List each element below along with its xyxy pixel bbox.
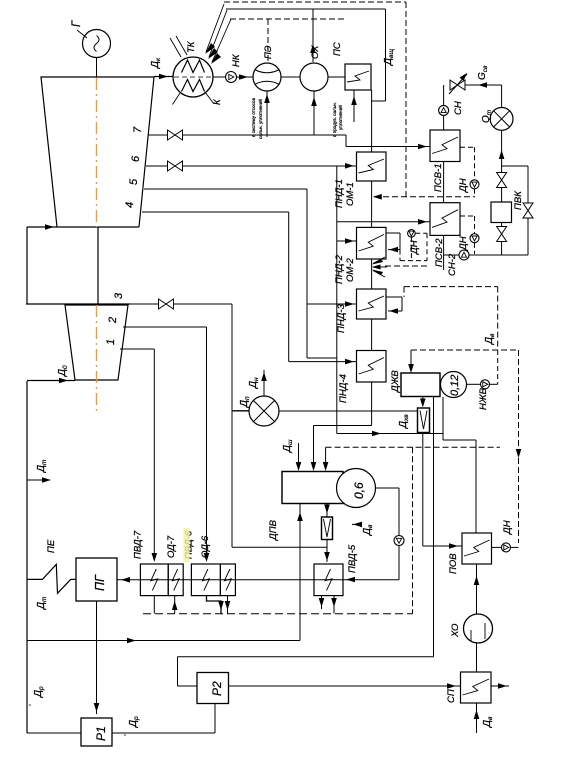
heater PND-3 [357, 289, 387, 319]
svg-text:3: 3 [113, 292, 125, 299]
heater PND-2 [357, 227, 387, 259]
vacuum deaerator column DZhV [401, 373, 440, 397]
industrial steam consumer circle [249, 396, 279, 426]
pump NZhV [481, 380, 490, 389]
svg-text:ПНД-4: ПНД-4 [338, 374, 349, 403]
arrow into PND-2 [337, 240, 357, 242]
vapour cooler OV [418, 408, 430, 433]
valve on extraction 7 [168, 130, 176, 140]
svg-text:ДН: ДН [458, 236, 469, 251]
Dvsh loop vertical [385, 9, 387, 101]
svg-text:в систему отсосов: в систему отсосов [251, 97, 256, 137]
Dp stub [232, 410, 250, 412]
expander R1 box [81, 718, 112, 746]
PVD-6 heater [191, 564, 220, 596]
OD-7 drain cooler [168, 564, 183, 596]
OV-2 outlet into PVD-5 [326, 540, 328, 563]
svg-text:ПСВ-2: ПСВ-2 [434, 238, 445, 267]
svg-text:6: 6 [130, 155, 142, 162]
peak boiler PVK box [491, 202, 512, 223]
deaerator inlet Dsh [298, 443, 300, 467]
highlight artifact [184, 528, 190, 562]
line Gsv [465, 84, 502, 86]
heater PSV-1 [430, 130, 460, 162]
PVD-5 heater [314, 564, 343, 596]
condenser tube bundle 1 [182, 60, 205, 73]
svg-text:ТК: ТК [186, 40, 197, 53]
DN-3 connections [492, 546, 502, 548]
svg-text:5: 5 [128, 178, 140, 185]
wire main steam line to turbine (vertical x=27) [26, 381, 28, 733]
R1 steam to deaerator [27, 640, 300, 642]
svg-text:НЖВ: НЖВ [478, 387, 489, 410]
svg-text:Р2: Р2 [210, 681, 224, 696]
pump SN-1 [439, 105, 449, 115]
svg-text:в продув. сальн.: в продув. сальн. [332, 102, 337, 137]
cooler OH circle [300, 63, 328, 91]
svg-text:ПВД-5: ПВД-5 [347, 544, 358, 573]
PSV-2 drain dashed to DN-2 [460, 215, 475, 217]
svg-text:0,6: 0,6 [352, 482, 366, 499]
svg-text:ХО: ХО [450, 623, 461, 638]
DZhV tank outlet down [433, 397, 435, 657]
svg-text:НК: НК [231, 53, 242, 67]
vapour vent Dv stub [352, 523, 362, 525]
extraction 4 line [142, 211, 289, 213]
turbine middle section box [26, 227, 28, 304]
feed pump discharge [398, 546, 400, 580]
dashed drain box right side [412, 447, 414, 614]
deaerator inlet dashed right [325, 447, 327, 466]
PVD-7 heater [140, 564, 168, 596]
extraction 6 stub [146, 165, 168, 167]
SP make-up inlet Dv [476, 703, 478, 733]
turbine inlet line D0 [27, 380, 75, 382]
pump DN (PND-2 drains) [408, 230, 416, 238]
svg-text:сальн. уплотнений: сальн. уплотнений [257, 99, 263, 139]
svg-text:ПНД-2: ПНД-2 [334, 254, 345, 284]
svg-text:1: 1 [105, 339, 117, 345]
extraction 3 line [173, 303, 232, 305]
PE drain line with arrow [266, 91, 268, 137]
OH vent line [312, 9, 314, 62]
condensate return line from Dp [279, 410, 418, 412]
valve PVK lower [501, 223, 503, 227]
turbine section joint line upper with arrow [27, 226, 139, 228]
line to PVK [501, 187, 503, 202]
header to DZhV line [337, 433, 443, 435]
heater PSV-2 [430, 203, 460, 236]
svg-text:ДЖВ: ДЖВ [390, 370, 401, 393]
svg-text:ПЕ: ПЕ [46, 539, 57, 553]
DZhV outlet horizontal [178, 656, 434, 658]
NZhV suction [467, 383, 481, 385]
PS drain with arrow [353, 90, 355, 122]
condenser left support leg [173, 92, 181, 104]
svg-text:уплотнений: уплотнений [337, 105, 343, 130]
svg-text:ПВК: ПВК [513, 190, 524, 210]
gland heater PS [345, 64, 371, 90]
control valve [450, 80, 458, 90]
svg-text:ПГ: ПГ [93, 574, 107, 591]
condenser K circle [173, 57, 213, 97]
make-up water into DZhV [410, 350, 412, 369]
svg-text:ПСВ-1: ПСВ-1 [433, 163, 444, 192]
generator shaft [96, 57, 98, 77]
svg-text:СП: СП [446, 689, 457, 703]
ext5 to PND-3 [307, 303, 357, 305]
drain bus dashed [143, 613, 413, 615]
dashed drop x=406 [405, 2, 407, 197]
DZhV drain into OV [422, 397, 424, 404]
PND-2 drain loop [386, 232, 400, 234]
deaerator 0,6 column [282, 472, 343, 504]
K leader line [205, 92, 214, 104]
extraction 3 stub [127, 303, 159, 305]
valve on extraction 3 [159, 299, 167, 309]
ext5 join header [307, 357, 337, 359]
condensate PND-4 to deaerator [314, 425, 372, 427]
ejector PE circle [253, 63, 281, 91]
PND-2 drains fan arrows [373, 257, 385, 264]
dashed make-up header [411, 349, 519, 351]
rail Dvsh dashed upper [224, 1, 406, 3]
OH drain line with arrow [313, 91, 315, 135]
svg-text:7: 7 [132, 126, 144, 133]
POV feed from OV [422, 433, 424, 547]
PVD-5 drain stub [321, 596, 323, 609]
turbine section joint line lower [26, 303, 130, 305]
deaerator outlet to feed pump [376, 487, 400, 489]
svg-text:ОМ-2: ОМ-2 [345, 258, 356, 282]
HO to SP [476, 643, 478, 672]
steam dump diagonals into condenser [206, 4, 224, 52]
ext4 to PND-4 [289, 361, 357, 363]
svg-text:Г: Г [71, 20, 83, 27]
turbine HP cylinder (trapezoid) [65, 305, 128, 380]
dashed drain bus upper [404, 286, 498, 288]
heater PND-4 [357, 351, 387, 383]
svg-text:0,12: 0,12 [449, 375, 461, 396]
steam riser from R1 [299, 504, 301, 641]
PE steam feed (dashed) [267, 19, 269, 62]
OD-6 drain cooler [220, 564, 235, 596]
0,12 outlet [442, 397, 444, 440]
extraction4 drop [288, 212, 290, 362]
main condensate line [371, 90, 373, 152]
deaerator 0,6 tank [337, 469, 376, 508]
extraction 5 line [144, 188, 307, 190]
svg-text:ПНД-1: ПНД-1 [334, 179, 345, 208]
R2 to SP line [229, 685, 461, 687]
svg-text:ПВД-7: ПВД-7 [133, 530, 144, 559]
feed water main line [117, 579, 399, 581]
svg-text:ДН: ДН [502, 520, 513, 535]
vacuum deaerator tank 0,12 [441, 372, 467, 398]
TK leader lines [170, 38, 181, 57]
pump NK [226, 72, 237, 83]
extraction 6 line [182, 165, 357, 167]
svg-text:СН-2: СН-2 [447, 253, 458, 276]
SP outlet right [491, 685, 509, 687]
blowdown line PG to R1 [96, 601, 98, 714]
PVD-7 drain stub [153, 596, 155, 614]
feed pump PN [394, 536, 404, 546]
ext2 into PVD-6 [206, 327, 208, 560]
valve PVK upper [497, 173, 507, 181]
R1 left connection [27, 732, 81, 734]
extraction5 drop [306, 189, 308, 358]
superheater PE zigzag [27, 564, 76, 593]
heat consumer Qt [501, 85, 503, 108]
svg-text:Р1: Р1 [94, 726, 108, 741]
svg-text:2: 2 [107, 317, 119, 324]
turbine LP cylinder (trapezoid) [41, 77, 154, 227]
svg-text:4: 4 [124, 202, 136, 208]
pump DN-1 [470, 180, 479, 189]
deaerator inlet from PND-4 [313, 426, 315, 467]
svg-text:ДН: ДН [458, 178, 469, 193]
ext3 into PVD-5 [231, 304, 233, 547]
PSV-1 drain dashed to DN-1 [460, 146, 475, 148]
POV to HO line [476, 564, 478, 614]
extraction 1 line [120, 348, 154, 350]
generator G circle [83, 30, 111, 58]
bypass valve [523, 203, 533, 211]
R2 steam line up [177, 657, 179, 686]
condensate rail (condenser row) [213, 76, 226, 78]
dashed drain bus to PND-2 fan [385, 265, 430, 267]
drain return after PND-1 (dashed) [374, 196, 475, 198]
arrow into PVD-5 [346, 577, 355, 583]
heater PND-1 [357, 152, 387, 181]
PSV-2 drain dashed to PND-2 [415, 232, 427, 234]
SN-2 to PSV-2 [444, 254, 459, 256]
return line Dn [263, 370, 265, 396]
turbine exhaust to condenser [154, 76, 173, 78]
PND-3 drain loop [386, 296, 402, 298]
extraction 7 line [182, 134, 346, 136]
svg-text:ПНД-3: ПНД-3 [336, 303, 347, 333]
svg-text:ДПВ: ДПВ [268, 519, 279, 541]
rail Dvsh solid [226, 8, 386, 10]
ext1 into PVD-7 [153, 349, 155, 560]
pump DN-2 [470, 234, 479, 243]
heating line to PSV-2 [337, 221, 430, 223]
svg-text:СН: СН [453, 101, 464, 115]
expander R2 box [197, 673, 229, 704]
return from Qt [501, 130, 503, 173]
svg-text:ПОВ: ПОВ [448, 553, 459, 574]
heater POV [462, 533, 492, 564]
pump SN-2 [459, 250, 469, 260]
vapour cooler OV-2 [322, 517, 333, 540]
valve on extraction 6 [168, 161, 176, 171]
rail dashed lower [230, 18, 345, 20]
NZhV discharge dashed [490, 383, 498, 385]
return water header [469, 254, 528, 256]
extraction 2 line [123, 326, 207, 328]
pump DN-3 [502, 543, 511, 552]
svg-text:ОМ-1: ОМ-1 [345, 182, 356, 206]
svg-text:ОД-7: ОД-7 [166, 535, 177, 558]
extraction 7 stub [148, 134, 168, 136]
PVD-6 drain stub [207, 596, 222, 614]
deaerator vapour line [326, 504, 328, 518]
extraction 6 drop header [336, 166, 338, 434]
condenser tube bundle 2 [182, 80, 205, 92]
steam generator PG box [76, 558, 117, 601]
chemical treatment HO circle [464, 614, 493, 643]
turbine axis (orange dash-dot) [96, 78, 98, 227]
svg-text:ПС: ПС [332, 42, 343, 56]
svg-text:ДН: ДН [409, 240, 420, 255]
R1 to R2 connection [112, 732, 215, 734]
PSV-1 steam feed from ext7 [345, 135, 347, 147]
network water line through PSV [443, 85, 445, 105]
heater SP [461, 672, 492, 703]
PVK branch split [502, 165, 528, 167]
dashed riser to DN-3 [518, 350, 520, 543]
